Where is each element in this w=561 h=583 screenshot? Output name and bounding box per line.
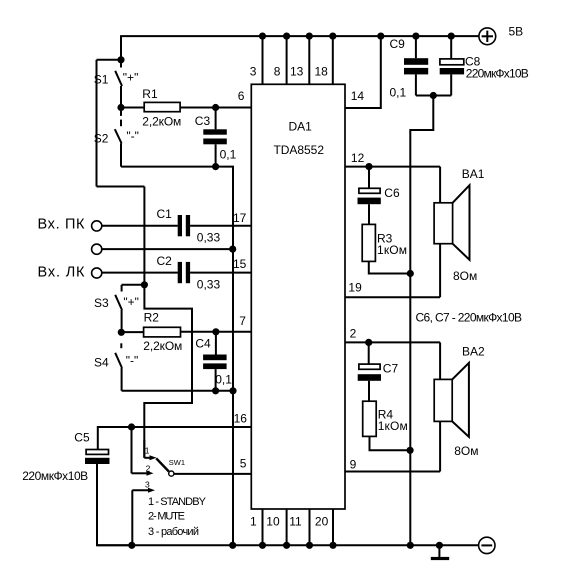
wire: R1 right lead to IC pin 6 <box>180 107 251 109</box>
svg-text:"-": "-" <box>126 129 139 143</box>
svg-text:18: 18 <box>315 64 329 78</box>
wire: SW1 pivot to IC pin 5 <box>174 473 251 475</box>
capacitor C1 plates 0,33 <box>178 215 190 236</box>
svg-text:Вх. ЛК: Вх. ЛК <box>38 264 86 280</box>
svg-text:"+": "+" <box>123 71 139 85</box>
svg-text:2,2кОм: 2,2кОм <box>142 115 181 129</box>
svg-text:R2: R2 <box>144 311 160 325</box>
speaker BA1 lead bottom <box>439 244 441 298</box>
switch SW1 blade and pivot <box>156 458 174 476</box>
capacitor C2 plates 0,33 <box>178 262 190 283</box>
svg-text:Вх. ПК: Вх. ПК <box>38 217 86 233</box>
wire: detour from S3 node to SW1 contact 1 <box>144 285 192 458</box>
speaker BA2 <box>434 363 469 437</box>
svg-text:11: 11 <box>289 515 302 529</box>
svg-text:S1: S1 <box>94 73 109 87</box>
switch SW1 contact 2 riser <box>132 427 154 476</box>
junction dot C3 top <box>212 104 219 111</box>
input terminal circle 3 (left channel) <box>92 268 102 278</box>
switch SW1 contact 3 to ground rail <box>132 488 155 546</box>
svg-text:C9: C9 <box>390 37 406 51</box>
wire: C2 to IC pin 15 <box>190 272 251 274</box>
capacitor C7 top lead <box>368 342 370 364</box>
svg-text:8: 8 <box>274 64 281 78</box>
junction dot R4 on ground run <box>407 447 414 454</box>
svg-text:3: 3 <box>145 480 150 490</box>
junction dot R2 left <box>118 329 125 336</box>
wire: R2 right lead to IC pin 7 <box>181 331 252 333</box>
switch SW1 contact 1 <box>144 440 156 460</box>
resistor R1 2,2кОм <box>144 102 180 111</box>
wire: right-channel input to C1 <box>102 225 178 227</box>
speaker BA2 lead bottom <box>439 421 441 471</box>
wire: pin 3 top leg <box>262 36 264 84</box>
svg-text:2: 2 <box>146 463 151 473</box>
svg-text:10: 10 <box>266 515 280 529</box>
capacitor C9 bottom lead <box>415 74 417 95</box>
svg-text:С6, С7 - 220мкФх10В: С6, С7 - 220мкФх10В <box>416 310 523 324</box>
svg-text:9: 9 <box>350 458 357 472</box>
svg-text:15: 15 <box>233 257 247 271</box>
svg-text:C1: C1 <box>157 207 173 221</box>
svg-text:6: 6 <box>238 89 245 103</box>
junction dot R3 on ground run <box>407 270 414 277</box>
capacitor C9 plates (0,1) <box>404 58 428 74</box>
wire: IC pin 9 output line <box>345 471 440 473</box>
wire: IC pin 2 output line <box>345 341 440 343</box>
svg-text:3: 3 <box>250 64 257 78</box>
wire: pin 18 top leg <box>332 36 334 84</box>
wire: R1 left lead <box>121 107 144 109</box>
speaker BA2 lead top <box>439 342 441 379</box>
capacitor C3 top lead <box>215 108 217 130</box>
svg-text:C7: C7 <box>383 361 399 375</box>
svg-text:SW1: SW1 <box>169 458 185 467</box>
svg-text:12: 12 <box>351 151 365 165</box>
junction dot S3 top node <box>141 281 148 288</box>
svg-text:R1: R1 <box>142 87 158 101</box>
capacitor C7 plates (polar 220uF) <box>358 364 381 381</box>
wire: R4 bottom to ground run <box>370 436 411 450</box>
svg-text:"+": "+" <box>123 295 139 309</box>
junction dot C8/C9 ground <box>430 92 437 99</box>
svg-text:20: 20 <box>315 515 329 529</box>
input terminal circle 2 (common) <box>92 244 102 254</box>
resistor R4 1кОм <box>363 401 377 436</box>
wire: pin 8 top leg <box>286 36 288 84</box>
wire: top 5V supply rail <box>120 35 479 37</box>
wire: IC pin 19 output line <box>345 296 440 298</box>
wire: R2 left lead <box>121 331 143 333</box>
svg-text:BA1: BA1 <box>462 167 485 181</box>
svg-text:1кОм: 1кОм <box>377 243 407 257</box>
capacitor C3 bottom lead <box>215 144 217 166</box>
svg-text:8Ом: 8Ом <box>453 269 477 283</box>
wire: column x=144 down to S3 node <box>143 187 145 285</box>
junction dot common input on ground column <box>229 246 236 253</box>
capacitor C4 top lead <box>215 332 217 355</box>
svg-text:C6: C6 <box>384 186 400 200</box>
wire: C9/C8 ground join <box>416 95 451 97</box>
svg-text:17: 17 <box>233 211 247 225</box>
svg-text:TDA8552: TDA8552 <box>274 143 325 157</box>
wire: pin 11 bottom leg <box>309 509 311 545</box>
svg-text:5: 5 <box>240 457 247 471</box>
wire: step right <box>97 186 145 188</box>
svg-text:0,1: 0,1 <box>220 147 237 161</box>
wire: left-channel input to C2 <box>102 272 178 274</box>
switch S2 ("-") with link dash <box>115 108 122 167</box>
speaker BA1 lead top <box>439 167 441 203</box>
capacitor C3 plates (0,1) <box>203 129 227 144</box>
switch S3 ("+") <box>115 285 122 333</box>
capacitor C4 bottom lead <box>215 369 217 391</box>
svg-text:7: 7 <box>239 314 246 328</box>
wire: S3 top feed <box>122 284 145 286</box>
wire: bottom ground rail <box>97 544 479 546</box>
capacitor C6 bottom lead <box>368 204 370 224</box>
svg-text:0,33: 0,33 <box>197 278 221 292</box>
junction dot C4 bottom <box>212 387 219 394</box>
junction dot C6 top <box>365 163 372 170</box>
svg-text:2: 2 <box>350 327 357 341</box>
svg-text:S3: S3 <box>94 296 109 310</box>
svg-text:C5: C5 <box>74 430 90 444</box>
power terminal + (5V) <box>479 28 496 45</box>
wire: pin 10 bottom leg <box>286 509 288 545</box>
svg-text:"-": "-" <box>126 353 139 367</box>
svg-text:8Ом: 8Ом <box>454 444 478 458</box>
power terminal - (0V) <box>479 537 495 553</box>
svg-text:1: 1 <box>145 446 150 456</box>
ground symbol <box>431 545 449 560</box>
op-amp IC DA1 TDA8552 body <box>251 84 345 509</box>
svg-text:C2: C2 <box>157 254 173 268</box>
svg-text:13: 13 <box>290 64 304 78</box>
svg-text:3 - рабочий: 3 - рабочий <box>148 526 199 538</box>
capacitor C7 bottom lead <box>368 381 370 401</box>
switch S1 ("+") <box>115 60 122 108</box>
svg-text:0,33: 0,33 <box>197 231 221 245</box>
svg-text:C3: C3 <box>195 114 211 128</box>
wire: S1 feed to left column <box>97 59 122 61</box>
svg-text:DA1: DA1 <box>289 120 313 134</box>
junction dot C7 top <box>365 339 372 346</box>
capacitor C8 bottom lead <box>450 74 452 95</box>
junction dot C4 top <box>212 328 219 335</box>
junction dots on bottom rail <box>128 542 443 549</box>
resistor R2 2,2кОм <box>144 327 181 337</box>
wire: S4 bottom line to ground column <box>122 390 233 392</box>
wire: pin 1 bottom leg <box>262 509 264 545</box>
svg-text:1 - STANDBY: 1 - STANDBY <box>148 496 207 508</box>
junction dot R1 left <box>117 104 124 111</box>
capacitor C6 plates (polar 220uF) <box>358 188 381 204</box>
wire: IC pin 16 line to C5 <box>98 427 252 450</box>
svg-text:S4: S4 <box>94 356 109 370</box>
wire: C1 to IC pin 17 <box>190 225 251 227</box>
svg-text:S2: S2 <box>94 131 109 145</box>
wire: pin 13 top leg <box>308 36 310 84</box>
svg-text:14: 14 <box>351 89 365 103</box>
junction dot C3 bottom <box>212 163 219 170</box>
svg-text:2- MUTE: 2- MUTE <box>148 511 185 523</box>
wire: R3 bottom to ground run <box>369 261 411 273</box>
svg-text:5В: 5В <box>509 25 524 39</box>
speaker BA1 <box>434 185 469 260</box>
wire: rail corner down to S1 <box>120 36 122 60</box>
svg-text:1: 1 <box>250 515 257 529</box>
capacitor C9 top lead <box>415 36 417 58</box>
svg-text:2,2кОм: 2,2кОм <box>143 339 182 353</box>
svg-text:C4: C4 <box>195 337 211 351</box>
junction dot S4 line on ground column <box>229 387 236 394</box>
svg-text:BA2: BA2 <box>462 345 485 359</box>
junction dot S1 top <box>117 56 124 63</box>
capacitor C4 plates (0,1) <box>203 355 227 370</box>
wire: IC pin 12 output line <box>345 166 440 168</box>
capacitor C8 top lead <box>450 36 452 59</box>
wire: ground run from filter caps down to bottom rail <box>410 96 433 546</box>
wire: S2 bottom to signal-ground column <box>121 167 233 546</box>
svg-text:220мкФх10В: 220мкФх10В <box>466 67 529 81</box>
wire: common input to signal ground <box>102 248 233 250</box>
junction dot SW1 contact2 riser on pin16 line <box>128 423 135 430</box>
capacitor C8 plates (polar 220uF) <box>440 59 464 75</box>
switch S4 ("-") with link dash <box>115 343 122 391</box>
svg-text:0,1: 0,1 <box>215 373 232 387</box>
svg-text:220мкФх10В: 220мкФх10В <box>22 469 88 483</box>
svg-text:1кОм: 1кОм <box>378 419 408 433</box>
resistor R3 1кОм <box>362 224 375 261</box>
wire: left column down <box>96 60 98 187</box>
capacitor C6 top lead <box>368 167 370 189</box>
wire: pin 20 bottom leg <box>332 509 334 545</box>
wire: pin 14 from rail, down and left into IC <box>345 36 381 108</box>
capacitor C5 plates (polar 220uF) <box>85 450 110 465</box>
svg-text:16: 16 <box>234 412 248 426</box>
input terminal circle 1 (right channel) <box>92 221 102 231</box>
svg-text:19: 19 <box>348 280 362 294</box>
svg-text:0,1: 0,1 <box>390 86 407 100</box>
capacitor C5 bottom lead to ground rail <box>97 464 132 545</box>
junction dots on top rail <box>259 33 455 40</box>
